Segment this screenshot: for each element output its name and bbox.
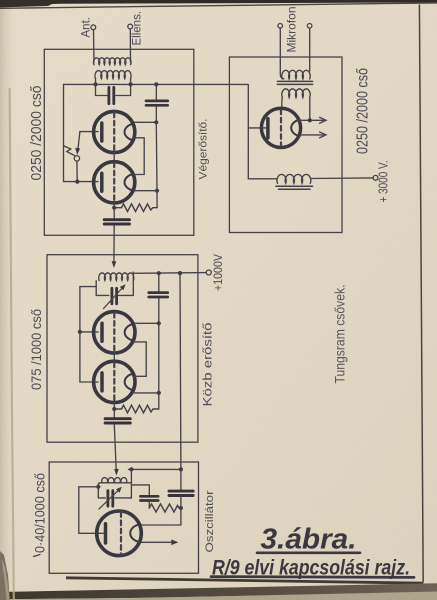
node upper output junction xyxy=(308,118,312,122)
inductor L1 secondary (tank coil) xyxy=(95,71,131,79)
wire Ant lead xyxy=(93,30,96,62)
inductor L3 xyxy=(98,483,131,498)
wire V3 anode lead xyxy=(135,322,159,324)
svg-text:Végerősítő.: Végerősítő. xyxy=(197,119,209,180)
arrow trimmer C7 xyxy=(99,489,120,509)
wire secondary right lead xyxy=(309,98,311,121)
wire C5 top lead xyxy=(158,273,160,291)
arrow upper output xyxy=(320,117,326,123)
top black page edge band xyxy=(0,0,437,6)
capacitor C2 (coupling) xyxy=(146,101,168,105)
wire tank right drop osc xyxy=(115,469,131,498)
svg-text:Tungsram csővek.: Tungsram csővek. xyxy=(333,285,348,384)
underline title 2 xyxy=(211,575,414,579)
bottom-left dark page corner xyxy=(0,551,10,600)
wire anode bus right mid xyxy=(158,323,160,409)
wire Ellens lead xyxy=(129,29,131,62)
svg-text:Közb erősítő: Közb erősítő xyxy=(203,323,215,407)
svg-text:3.ábra.: 3.ábra. xyxy=(261,524,357,556)
wire cross coupling mid xyxy=(134,342,147,376)
underline title xyxy=(257,551,360,554)
wire tank left drop osc xyxy=(98,497,105,499)
wire V2 cathode lead xyxy=(113,203,115,218)
arrow lower output xyxy=(320,132,326,138)
wire grid branch left mid xyxy=(80,287,98,382)
wire V1 anode lead xyxy=(134,121,156,123)
box: Oszcillátor stage outline xyxy=(49,462,198,573)
wire grid cap branch xyxy=(131,485,149,495)
tube V1 grid (dashed) xyxy=(113,113,115,152)
node osc rail right xyxy=(179,467,183,471)
arrow interstage input xyxy=(112,261,117,268)
wire V5 output lower xyxy=(301,134,326,136)
tube V3 envelope xyxy=(94,312,135,353)
node V4 anode junction xyxy=(157,391,161,395)
spark bolt symbol xyxy=(64,146,75,156)
resistor R2 xyxy=(114,405,159,413)
terminal Mikrofon left xyxy=(278,24,283,29)
wire secondary left lead xyxy=(281,98,284,109)
svg-text:+1000V: +1000V xyxy=(211,254,225,291)
wire interstage down mid xyxy=(114,424,116,470)
svg-text:Ant.: Ant. xyxy=(81,17,93,37)
tube V2 anode bar xyxy=(100,173,104,191)
node V2 anode junction xyxy=(155,189,159,193)
tube V6 cathode arc xyxy=(130,524,139,542)
node cathode junction mid xyxy=(112,407,116,411)
wire tank right drop xyxy=(116,79,131,96)
tube V6 anode bar xyxy=(104,524,108,543)
tube V1 envelope xyxy=(94,111,135,152)
capacitor C5 (coupling) xyxy=(149,293,168,297)
node grid-cap junction xyxy=(154,82,158,86)
node cathode junction xyxy=(112,206,116,210)
arrow oscillator input xyxy=(114,469,119,476)
transformer T2 primary xyxy=(282,70,310,79)
wire mic lead right xyxy=(309,28,311,71)
tube V6 envelope xyxy=(97,511,142,556)
wire V5 output upper xyxy=(298,119,325,121)
node tank left junction xyxy=(93,82,97,86)
terminal Mikrofon right xyxy=(307,24,312,29)
svg-text:0·40/1000 cső: 0·40/1000 cső xyxy=(32,473,48,553)
wire C8 bottom lead xyxy=(148,502,150,508)
node tank right junction xyxy=(129,82,133,86)
bottom black page edge band xyxy=(0,583,437,599)
outer frame top line xyxy=(0,3,437,8)
wire V5 grid lead xyxy=(248,127,266,129)
capacitor C3 (bypass) xyxy=(104,220,129,224)
resistor R3 xyxy=(149,504,181,512)
svg-text:0250 /2000 cső: 0250 /2000 cső xyxy=(355,68,372,154)
switch key lower lead xyxy=(76,161,78,180)
label 0-40/1000 cső xyxy=(34,555,41,557)
box: modulator stage outline xyxy=(229,57,342,233)
svg-text:Ellens.: Ellens. xyxy=(132,11,144,46)
node key junction xyxy=(75,180,79,184)
node V3 anode junction xyxy=(157,321,161,325)
capacitor C4 trimmer plates xyxy=(112,288,117,303)
capacitor C7 trimmer plates xyxy=(108,491,113,507)
node B+ drop junction xyxy=(178,271,182,275)
tube V6 grid (dashed) xyxy=(120,512,122,554)
node V3 grid junction xyxy=(78,330,82,334)
wire V2 anode lead xyxy=(134,190,157,192)
inductor L4 modulation choke xyxy=(277,174,311,183)
tube V5 grid (dashed) xyxy=(280,110,282,147)
svg-text:Mikrofon: Mikrofon xyxy=(285,7,299,53)
box: Közb erősítő stage outline xyxy=(47,255,198,443)
node grid-cap junction mid xyxy=(157,271,161,275)
wire tank left drop xyxy=(96,79,107,96)
terminal +3000V xyxy=(373,175,378,180)
svg-text:Oszcillátor: Oszcillátor xyxy=(204,490,216,552)
wire V1 grid lead xyxy=(80,131,98,133)
tube V4 envelope xyxy=(94,361,135,402)
wire C2 bottom lead xyxy=(155,107,157,123)
wire B+ rail of output stage xyxy=(64,83,248,85)
node osc rail mid xyxy=(129,467,133,471)
arrow trimmer C4 xyxy=(104,287,124,309)
wire V4 anode lead xyxy=(135,392,159,394)
wire tank right drop mid xyxy=(119,272,134,295)
inductor L2 xyxy=(99,273,134,281)
tube V5 envelope xyxy=(261,108,300,147)
capacitor C6 (bypass) xyxy=(105,419,130,423)
tube V3 cathode arc xyxy=(125,324,134,341)
terminal +1000V xyxy=(206,270,211,275)
node V1 anode junction xyxy=(154,120,158,124)
wire C9 top lead xyxy=(180,469,182,489)
capacitor C1 (tank) xyxy=(109,87,114,103)
wire grid branch left xyxy=(64,84,99,181)
box: Végerősítő stage outline xyxy=(44,49,194,235)
tube V1 cathode arc xyxy=(125,124,134,141)
node osc rail left xyxy=(96,485,100,489)
outer frame bottom line xyxy=(66,578,423,583)
tube V2 grid (dashed) xyxy=(113,152,115,162)
transformer T2 core xyxy=(277,81,312,84)
wire tank left drop mid xyxy=(96,281,109,296)
switch key upper lead xyxy=(78,132,80,149)
wire anode bus right xyxy=(155,122,158,207)
wire grid branch left osc xyxy=(79,487,104,534)
tube V5 anode bar xyxy=(266,119,270,138)
wire cross coupling xyxy=(133,138,144,175)
wire interstage down xyxy=(113,225,115,261)
terminal Ellens xyxy=(128,24,133,29)
tube V3 anode bar xyxy=(100,323,104,341)
left page crease xyxy=(10,88,14,600)
inductor L4 core bars xyxy=(276,186,313,189)
terminal Ant xyxy=(91,25,96,30)
tube V4 cathode arc xyxy=(125,374,134,391)
transformer T2 secondary xyxy=(282,89,310,98)
wire modulator grid feed xyxy=(248,84,276,178)
wire C2 top lead xyxy=(155,84,157,99)
svg-text:075 /1000 cső: 075 /1000 cső xyxy=(28,309,44,390)
wire C9 bottom lead xyxy=(180,497,182,508)
tube V4 anode bar xyxy=(100,373,104,391)
tube V5 cathode arc xyxy=(291,120,299,137)
svg-text:+ 3000 V.: + 3000 V. xyxy=(377,161,391,203)
wire oscillator top rail xyxy=(128,468,181,470)
capacitor C9 (anode) xyxy=(169,491,193,495)
wire B+ rail mid stage xyxy=(133,272,206,275)
outer frame right line xyxy=(419,5,423,583)
wire mic lead left xyxy=(280,28,284,79)
wire B+ drop to oscillator xyxy=(179,273,182,469)
switch key contact circle xyxy=(74,156,79,161)
wire C5 bottom lead xyxy=(158,298,160,323)
tube V3 grid (dashed) xyxy=(113,313,115,352)
capacitor C8 (grid) xyxy=(140,496,158,500)
wire V3 grid lead xyxy=(80,331,98,333)
tube V2 cathode arc xyxy=(125,174,134,191)
tube V4 grid (dashed) xyxy=(113,352,115,362)
node R3 right junction xyxy=(179,506,183,510)
arrow oscillator output xyxy=(171,540,178,546)
resistor R1 xyxy=(114,204,157,212)
wire anode return xyxy=(140,508,181,525)
svg-text:0250 /2000 cső: 0250 /2000 cső xyxy=(28,86,45,181)
wire oscillator output xyxy=(138,541,177,543)
wire V4 cathode lead xyxy=(113,403,115,418)
tube V1 anode bar xyxy=(100,123,104,141)
inductor L1 primary (antenna coil) xyxy=(94,58,131,65)
switch key arrowhead xyxy=(75,148,80,155)
tube V2 envelope xyxy=(94,162,135,203)
wire choke to +3000V xyxy=(311,177,373,180)
